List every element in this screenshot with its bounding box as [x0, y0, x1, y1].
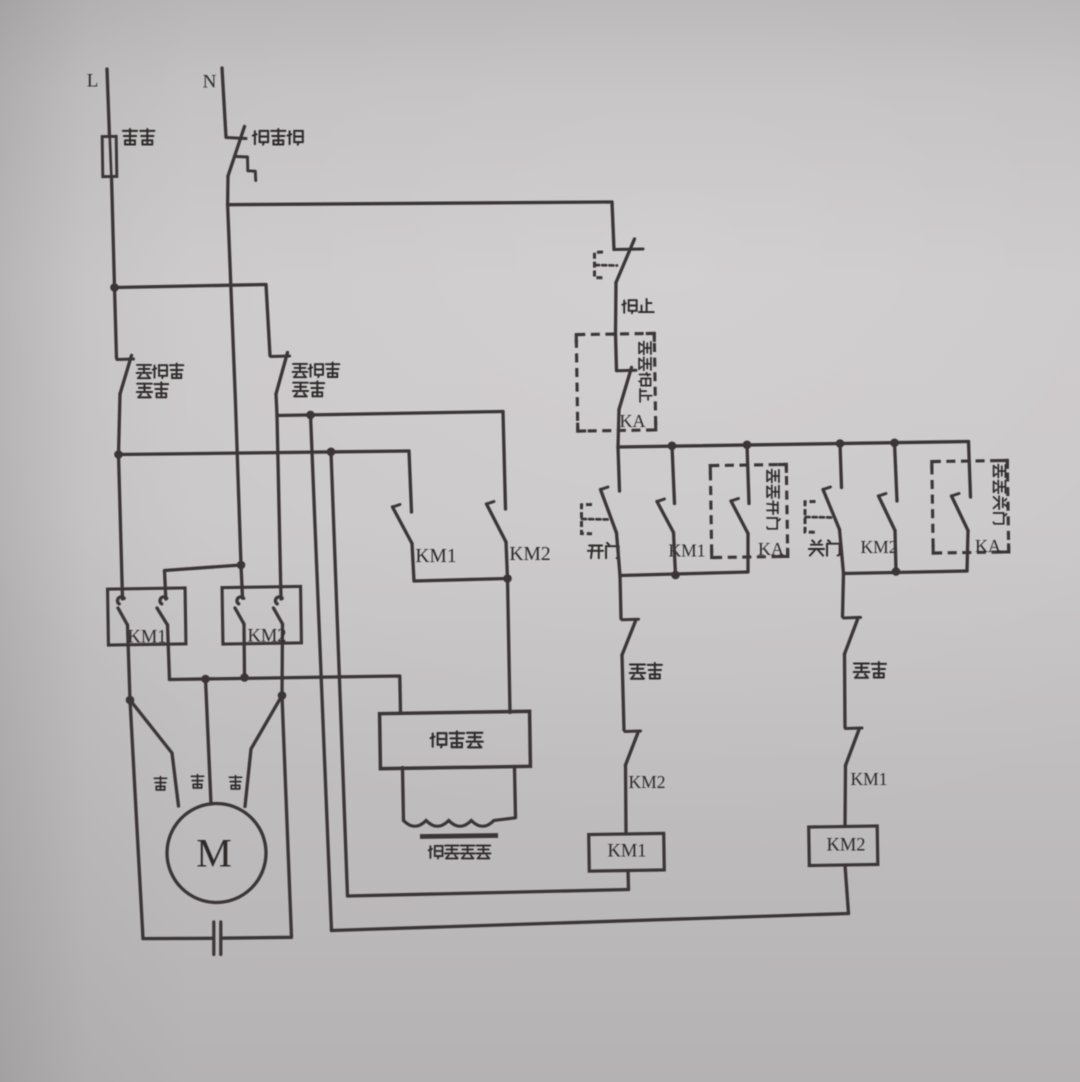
- label 黄: [191, 775, 203, 788]
- button 关门 bracket: [805, 502, 816, 533]
- wire KA1 out: [618, 410, 619, 448]
- label 关门: [809, 540, 824, 555]
- wire bus to KM2 ctl contact: [895, 443, 898, 501]
- motor M circle: [167, 804, 266, 903]
- wire bus451 to contact KM1mid: [409, 451, 412, 512]
- wire L to limit1: [115, 288, 117, 359]
- relay box KA 遥控停止: [576, 333, 656, 431]
- svg-text:KM1: KM1: [415, 546, 456, 567]
- wire KM2 box left down: [242, 624, 246, 678]
- control bus: [618, 442, 969, 448]
- wire rectifier out left: [403, 768, 404, 821]
- wire stop corner down: [612, 202, 614, 250]
- limit switch 防冲顶限位 1: [117, 358, 134, 362]
- wire KM2nc to coil KM1: [624, 765, 628, 834]
- wire L fuse to junction: [112, 177, 115, 288]
- fuse 保险: [102, 136, 117, 176]
- wire KM1nc to coil KM2: [843, 766, 847, 827]
- junction bus KM2ctl: [890, 439, 899, 448]
- svg-text:KM2: KM2: [826, 836, 865, 856]
- label 绿: [229, 776, 241, 789]
- contact KA1: [616, 334, 617, 371]
- button 关门 link: [806, 516, 834, 519]
- wire KM2 ctl to lower bus: [895, 531, 896, 572]
- wire 开门 to lower bus: [617, 533, 621, 576]
- wire joint to rectifier: [508, 579, 511, 713]
- label 停止: [622, 300, 636, 313]
- stop button 停止 contact: [614, 248, 643, 252]
- contact KM1 mid blade: [393, 507, 413, 544]
- wire N into KM2 box: [241, 565, 243, 598]
- wire motor red lead: [130, 700, 179, 806]
- junction bus KA2: [743, 441, 752, 450]
- bus motor feed y678: [170, 676, 401, 713]
- wire 限位R to KM1nc: [843, 654, 847, 728]
- return rail A horizontal: [332, 914, 849, 931]
- wire branch y287: [115, 285, 271, 356]
- return rail B vertical: [331, 452, 348, 896]
- wire motor loop right: [221, 696, 292, 939]
- contact KM1 ctl blade: [657, 502, 674, 533]
- wire L limit1 to junction: [119, 394, 121, 455]
- junction bus415 railA: [306, 411, 315, 420]
- junction L y287: [110, 283, 119, 292]
- junction bus KM1ctl: [668, 442, 677, 451]
- lower bus left group: [620, 572, 748, 576]
- label 限位 L: [630, 665, 646, 679]
- wire chain to 限位 R: [843, 574, 844, 617]
- wire N top: [222, 68, 226, 137]
- junction N y565: [237, 561, 246, 570]
- svg-text:KM2: KM2: [861, 537, 898, 557]
- contact KM1 NC right chain: [846, 727, 863, 731]
- return rail A vertical: [311, 415, 332, 931]
- contact KA3 blade: [952, 496, 969, 531]
- wire motor yellow lead: [206, 679, 212, 804]
- wire KM2mid to joint: [506, 542, 508, 579]
- svg-text:KM1: KM1: [607, 842, 646, 862]
- wire 限位L to KM2nc: [622, 655, 624, 730]
- relay box KA 遥控开门: [710, 464, 787, 557]
- stop button actuator link: [595, 264, 617, 267]
- svg-text:KM1: KM1: [127, 628, 166, 648]
- junction lower bus KM1ctl: [671, 571, 680, 580]
- junction KM2 left wire: [240, 673, 249, 682]
- bus y415: [277, 412, 503, 416]
- contact KM2 ctl blade: [879, 496, 896, 531]
- wire KM1 box right down: [168, 625, 170, 680]
- thermal protector heater element: [237, 157, 256, 181]
- wire chain to 限位 L: [620, 576, 621, 619]
- wire limit2 branch down to KM2 box: [277, 416, 281, 600]
- wire L to KM1 box: [119, 455, 123, 600]
- wire rectifier out right: [515, 768, 516, 818]
- label 整流板: [431, 733, 447, 747]
- wire bus to 关门 button: [840, 444, 842, 488]
- junction mid contacts: [503, 574, 512, 583]
- wire bus415 to contact KM2mid: [503, 412, 506, 510]
- contactor box KM1: [108, 588, 186, 645]
- limit switch 限位 R: [844, 616, 861, 620]
- wire limit2 to bus415: [276, 394, 277, 416]
- label 保险: [123, 129, 137, 145]
- wire bus to KM1 ctl contact: [672, 446, 675, 504]
- button 关门 blade: [823, 490, 840, 530]
- label 限位 R: [854, 664, 870, 678]
- wire bus to KA2 contact: [747, 445, 749, 504]
- contactor box KM2: [222, 586, 301, 644]
- junction motor right: [278, 691, 287, 700]
- wire KA3 to lower bus: [967, 531, 968, 572]
- junction bus451 railB: [327, 448, 336, 457]
- wire KM2 box right down: [280, 624, 284, 696]
- coil box KM2: [809, 826, 878, 866]
- junction motor mid wire: [201, 675, 210, 684]
- thermal protector 热保护 contact: [226, 138, 246, 139]
- label 遥控停止: [639, 342, 651, 355]
- svg-text:KM1: KM1: [851, 769, 888, 789]
- stop button actuator bracket: [595, 252, 604, 278]
- contact KM2 box left: [237, 597, 244, 604]
- contact KM2 box right: [275, 597, 282, 604]
- svg-text:KM2: KM2: [509, 544, 550, 565]
- brake coil arcs: [404, 818, 516, 826]
- label 刹车线圈: [429, 846, 443, 859]
- junction bus 关门: [836, 439, 845, 448]
- svg-text:KA: KA: [975, 536, 1001, 556]
- brake coil core bar: [420, 836, 498, 837]
- coil box KM1: [589, 833, 665, 871]
- label 遥控开门: [767, 470, 779, 483]
- wire coil KM2 down: [845, 865, 849, 914]
- relay box KA 遥控关门: [932, 460, 1009, 553]
- contact KM1 box left: [117, 597, 124, 604]
- svg-text:KM2: KM2: [247, 627, 286, 647]
- wire motor loop left: [130, 700, 214, 939]
- contact KA2 blade: [731, 501, 748, 534]
- wire branch y566 to KM1 right: [165, 565, 242, 599]
- wire 关门 to lower bus: [840, 530, 844, 574]
- svg-text:KA: KA: [758, 539, 784, 559]
- bus y451 from L: [119, 451, 410, 455]
- svg-text:KM2: KM2: [629, 772, 666, 792]
- svg-text:L: L: [87, 71, 99, 92]
- label 限位 2: [293, 383, 308, 397]
- wire L top: [107, 69, 110, 137]
- button 开门 bracket: [582, 505, 593, 534]
- label 热保护: [253, 131, 268, 145]
- label 红: [154, 777, 166, 790]
- wire motor green lead: [245, 696, 282, 807]
- contact KM2 mid blade: [487, 504, 507, 542]
- wire KM1 ctl to lower bus: [674, 533, 676, 576]
- wire bus to 开门 button: [618, 447, 620, 491]
- lower bus right group: [844, 571, 968, 574]
- rectifier box 整流板: [380, 711, 531, 768]
- wire KA2 to lower bus: [746, 534, 749, 572]
- svg-text:N: N: [203, 72, 217, 93]
- label 防冲顶 1: [137, 365, 152, 378]
- limit switch 限位 L: [622, 618, 639, 622]
- wire stop to KA1 box: [614, 283, 618, 335]
- wire coil KM1 down: [626, 871, 630, 890]
- junction motor left: [126, 696, 135, 705]
- svg-text:KA: KA: [620, 411, 646, 431]
- svg-text:M: M: [196, 831, 232, 876]
- button 开门 link: [582, 518, 610, 521]
- capacitor plate left: [212, 922, 215, 955]
- junction lower bus KM2ctl: [892, 567, 901, 576]
- wire N to KM2 box: [228, 205, 241, 565]
- wire N to stop corner: [228, 202, 612, 205]
- wire KM1mid to joint: [412, 544, 508, 582]
- limit switch 防冲顶限位 2: [271, 355, 290, 359]
- wire KM1 box left down: [128, 625, 131, 700]
- junction L y454: [114, 450, 123, 459]
- label 开门: [588, 546, 603, 559]
- return rail B horizontal: [348, 890, 629, 897]
- contact KM2 NC left chain: [625, 730, 641, 734]
- wire bus corner to KA3: [969, 442, 971, 498]
- contact KM1 box right: [160, 597, 167, 604]
- capacitor plate right: [219, 922, 222, 955]
- label 限位 1: [137, 384, 152, 398]
- button 开门 blade: [601, 490, 617, 534]
- label 遥控关门: [994, 465, 1006, 478]
- wire N below thermal: [226, 176, 230, 205]
- label 防冲顶 2: [293, 364, 308, 377]
